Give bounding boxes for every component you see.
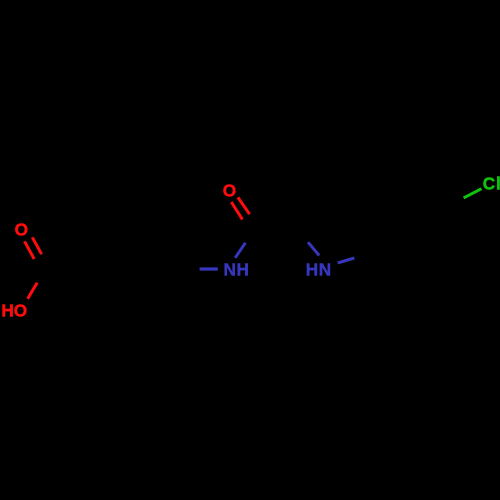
wire: C5 to Cl black half: [452, 198, 464, 201]
svg-text:O: O: [15, 219, 28, 239]
wire: benzoic acid ring C1-C2: [91, 230, 114, 270]
N1-C7a bond blue half: [338, 258, 355, 263]
wire: C1-C11 carboxyl attach: [45, 268, 91, 271]
wire: amide N to carbonyl C black half: [245, 231, 254, 243]
amide C=O double bond red half, line 2: [238, 197, 250, 214]
wire: ring C2-C3: [115, 228, 161, 231]
wire: benzo C7-C7a: [374, 251, 415, 272]
wire: indole C3-C3a: [326, 192, 371, 204]
wire: ring C4-C5: [161, 270, 184, 310]
C=O double bond red half, line 2: [32, 237, 41, 254]
wire: C4 to amide N black half: [184, 268, 200, 271]
wire: ring C6-C1: [91, 270, 114, 310]
N-carbonyl bond blue half: [235, 243, 245, 258]
C=O double bond red half, line 1: [25, 241, 35, 259]
svg-text:HO: HO: [1, 300, 27, 320]
C-OH bond red half: [28, 283, 38, 299]
wire: ring C3-C4: [161, 230, 184, 270]
wire: indole C2 to N1 black half: [301, 231, 308, 242]
wire: indole C7a to N1 black half: [354, 251, 373, 258]
carboxylic acid group: [1, 219, 41, 320]
wire: carbonyl C to indole C2: [255, 230, 301, 233]
amide carbonyl: [223, 181, 250, 220]
wire: benzo C5-C6: [452, 201, 454, 247]
C5-Cl bond green half: [464, 189, 482, 198]
svg-text:O: O: [223, 181, 236, 201]
chloro substituent: [464, 174, 500, 198]
wire: benzo C3a-C4: [371, 180, 410, 205]
wire: ring C5-C6: [115, 308, 161, 311]
carbon skeleton (black on black, invisible in source): [45, 180, 464, 310]
svg-text:NH: NH: [224, 259, 250, 279]
N-phenyl bond blue half: [200, 267, 218, 270]
amide C=O double bond red half, line 1: [231, 202, 242, 219]
N1-C2 bond blue half: [308, 242, 319, 255]
svg-text:Cl: Cl: [483, 174, 500, 194]
amide NH: [200, 243, 250, 280]
wire: benzo C4-C5: [411, 180, 452, 202]
svg-text:HN: HN: [306, 260, 332, 280]
wire: indole C3a-C7a: [371, 205, 373, 252]
wire: indole C2-C3: [301, 192, 327, 231]
indole NH: [306, 242, 355, 279]
wire: benzo C6-C7: [415, 248, 454, 273]
